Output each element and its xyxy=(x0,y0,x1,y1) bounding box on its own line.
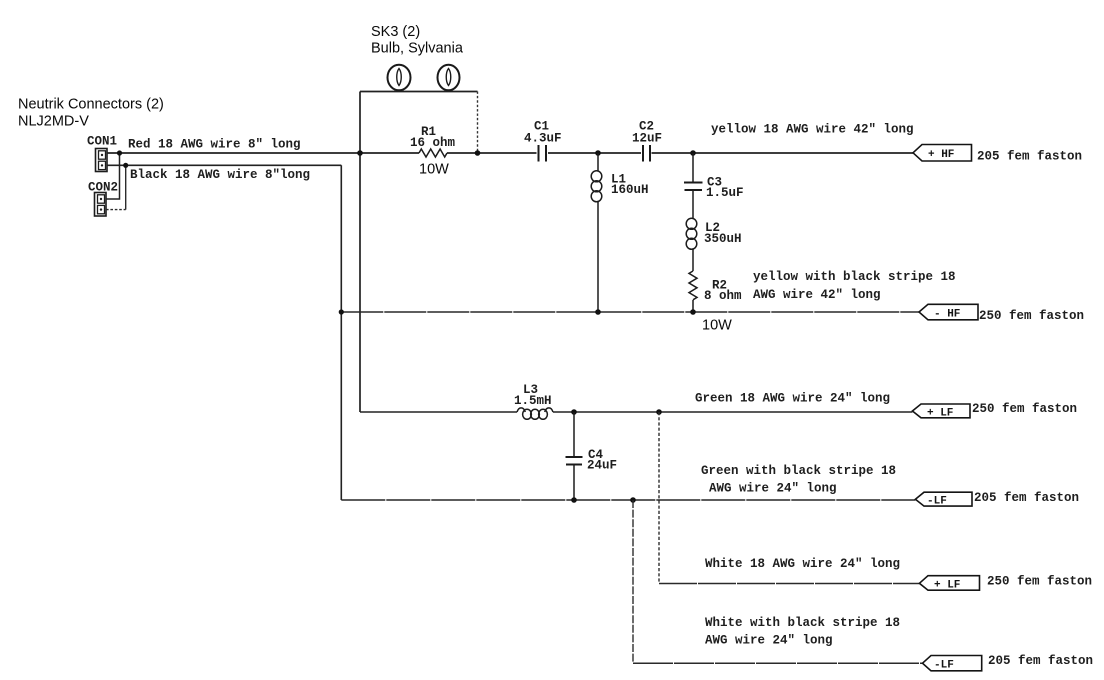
svg-text:SK3 (2): SK3 (2) xyxy=(371,24,420,40)
wire minus bus vertical xyxy=(340,165,342,500)
wire bulb right vertical xyxy=(477,92,479,154)
faston tag -HF xyxy=(919,304,978,320)
wire C3 branch upper xyxy=(692,153,694,182)
svg-text:12uF: 12uF xyxy=(632,131,662,145)
label Neutrik annotation xyxy=(18,97,164,130)
svg-text:+ LF: + LF xyxy=(934,580,960,592)
wire minus LF line xyxy=(341,499,915,501)
svg-text:Green with black stripe 18: Green with black stripe 18 xyxy=(701,464,896,478)
faston tag -LF xyxy=(915,492,972,506)
svg-text:160uH: 160uH xyxy=(611,183,649,197)
bulb SK3 b xyxy=(438,65,460,91)
svg-text:Bulb, Sylvania: Bulb, Sylvania xyxy=(371,41,464,57)
connector CON1 xyxy=(96,149,108,172)
junction white minus branch xyxy=(630,497,636,503)
capacitor C3 xyxy=(684,183,703,191)
junction plus vertical on main line xyxy=(357,150,363,156)
svg-text:205 fem faston: 205 fem faston xyxy=(988,654,1093,668)
wire C3 to L2 xyxy=(692,190,694,219)
svg-text:250 fem faston: 250 fem faston xyxy=(987,574,1092,588)
faston tag +LF xyxy=(912,404,970,418)
inductor L3 xyxy=(517,408,553,419)
svg-text:AWG wire 24" long: AWG wire 24" long xyxy=(705,634,833,648)
svg-text:AWG wire 42" long: AWG wire 42" long xyxy=(753,288,881,302)
svg-text:24uF: 24uF xyxy=(587,458,617,472)
svg-text:1.5mH: 1.5mH xyxy=(514,394,552,408)
resistor R1 xyxy=(419,149,447,157)
junction L1 top xyxy=(595,150,601,156)
svg-text:+ LF: + LF xyxy=(927,408,953,420)
svg-text:205 fem faston: 205 fem faston xyxy=(974,491,1079,505)
resistor R2 xyxy=(689,271,697,312)
capacitor C4 xyxy=(566,457,583,465)
wire white minus line xyxy=(633,662,923,664)
junction minus jumper xyxy=(123,163,128,168)
svg-text:10W: 10W xyxy=(419,162,449,178)
junction C3 top xyxy=(690,150,696,156)
svg-text:Red 18 AWG wire 8" long: Red 18 AWG wire 8" long xyxy=(128,138,301,152)
svg-text:NLJ2MD-V: NLJ2MD-V xyxy=(18,114,89,130)
wire minus HF line xyxy=(341,311,919,313)
svg-text:250 fem faston: 250 fem faston xyxy=(972,402,1077,416)
svg-text:Neutrik Connectors (2): Neutrik Connectors (2) xyxy=(18,97,164,113)
capacitor C2 xyxy=(643,145,650,162)
svg-text:CON2: CON2 xyxy=(88,180,118,194)
svg-text:yellow 18 AWG wire 42" long: yellow 18 AWG wire 42" long xyxy=(711,123,914,137)
wire white plus line xyxy=(659,583,919,585)
svg-text:CON1: CON1 xyxy=(87,135,117,149)
wire white minus vertical xyxy=(632,500,634,663)
wire red + main HF line xyxy=(107,152,913,154)
junction C4 top xyxy=(571,409,577,415)
svg-text:8 ohm: 8 ohm xyxy=(704,289,742,303)
svg-text:250 fem faston: 250 fem faston xyxy=(979,309,1084,323)
wire CON2 plus jumper xyxy=(106,153,120,199)
svg-text:4.3uF: 4.3uF xyxy=(524,131,562,145)
junction plus jumper xyxy=(117,150,122,155)
svg-text:White 18 AWG wire 24" long: White 18 AWG wire 24" long xyxy=(705,557,900,571)
svg-text:-LF: -LF xyxy=(934,660,954,672)
wire L2 to R2 xyxy=(692,249,694,271)
faston tag +HF xyxy=(913,145,972,162)
bulb SK3 a xyxy=(388,65,411,91)
connector CON2 xyxy=(95,193,107,217)
svg-text:Black 18 AWG wire 8"long: Black 18 AWG wire 8"long xyxy=(130,168,310,182)
svg-text:White with black stripe 18: White with black stripe 18 xyxy=(705,616,900,630)
wire white plus vertical xyxy=(658,412,660,584)
inductor L1 with branch wire xyxy=(591,153,602,312)
svg-text:AWG wire 24" long: AWG wire 24" long xyxy=(709,482,837,496)
faston tag -LF2 xyxy=(923,656,982,671)
svg-text:205 fem faston: 205 fem faston xyxy=(977,150,1082,164)
junction C4 bottom xyxy=(571,497,577,503)
svg-text:yellow with black stripe 18: yellow with black stripe 18 xyxy=(753,270,956,284)
junction white plus branch xyxy=(656,409,662,415)
svg-text:-LF: -LF xyxy=(927,496,947,508)
wire CON2 minus jumper xyxy=(106,165,126,209)
wire plus vertical bulb-LF feed xyxy=(359,92,361,413)
junction bulb right on main line xyxy=(475,150,481,156)
svg-text:+ HF: + HF xyxy=(928,149,954,161)
junction L1 bottom xyxy=(595,309,601,315)
svg-text:350uH: 350uH xyxy=(704,232,742,246)
svg-text:- HF: - HF xyxy=(934,309,960,321)
svg-text:Green 18 AWG wire 24" long: Green 18 AWG wire 24" long xyxy=(695,391,890,405)
wire C4 branch upper xyxy=(573,412,575,457)
wire black xyxy=(107,164,341,166)
wire C4 branch lower xyxy=(573,465,575,501)
junction minus HF at bus xyxy=(339,309,344,314)
svg-text:10W: 10W xyxy=(702,318,732,334)
svg-text:16 ohm: 16 ohm xyxy=(410,136,456,150)
wire bulb top rail xyxy=(360,91,478,93)
capacitor C1 xyxy=(539,145,547,162)
svg-text:1.5uF: 1.5uF xyxy=(706,186,744,200)
junction R2 bottom xyxy=(690,309,696,315)
inductor L2 xyxy=(686,218,697,249)
faston tag +LF2 xyxy=(919,576,979,591)
wire LF plus line with L3 xyxy=(360,411,912,413)
label SK3 annotation xyxy=(371,24,464,57)
